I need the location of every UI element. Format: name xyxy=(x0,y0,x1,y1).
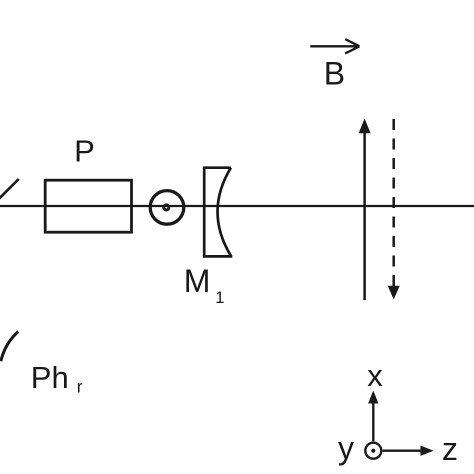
Faraday cell (circle with dot) xyxy=(150,191,184,225)
svg-text:r: r xyxy=(77,376,83,396)
svg-text:y: y xyxy=(338,430,354,466)
polarizer P box xyxy=(45,180,131,232)
svg-text:M: M xyxy=(184,263,211,299)
mirror M1 (plano-concave) xyxy=(203,166,232,257)
photodetector Ph_r window arc (cut at left edge) xyxy=(1,332,19,362)
svg-text:Ph: Ph xyxy=(31,360,69,395)
B field vector arrow xyxy=(310,39,359,53)
solid arrow head (up) xyxy=(359,119,371,134)
coord origin circle (y out of page) xyxy=(365,443,381,459)
Faraday cell center dot xyxy=(164,205,169,210)
coord origin dot xyxy=(371,449,375,453)
svg-text:x: x xyxy=(367,358,383,393)
coord axis x arrow line xyxy=(372,403,374,442)
dashed arrow head (down) xyxy=(388,286,400,300)
svg-text:1: 1 xyxy=(215,289,224,307)
wire optical axis z xyxy=(0,205,474,207)
coord x arrow head xyxy=(368,391,378,404)
coord axis z arrow line xyxy=(383,450,422,452)
svg-text:P: P xyxy=(74,134,95,169)
coord z arrow head xyxy=(421,446,434,456)
dashed polarization arrow (down) xyxy=(392,119,395,288)
solid polarization arrow (up) xyxy=(363,132,366,301)
svg-text:B: B xyxy=(324,56,345,92)
beamsplitter BS (cut at left edge) xyxy=(0,179,19,204)
svg-text:z: z xyxy=(442,431,458,467)
